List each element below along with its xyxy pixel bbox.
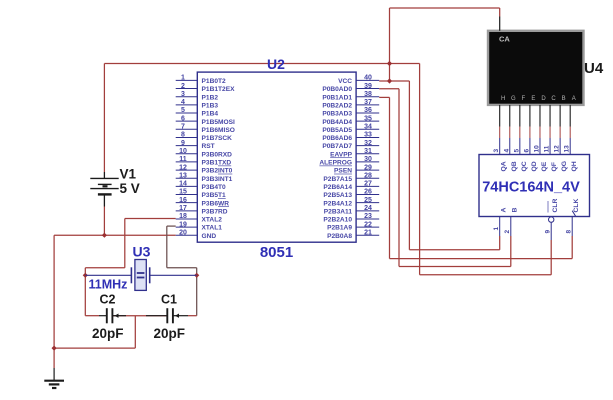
svg-text:5: 5 — [513, 149, 520, 153]
svg-text:ALEPROG: ALEPROG — [319, 160, 352, 167]
junction gnd rail — [52, 346, 57, 351]
U2 pin 4 P1B3 — [176, 99, 219, 109]
wire XTAL1: down to C1 — [196, 268, 198, 316]
svg-text:13: 13 — [564, 145, 571, 153]
ground — [44, 368, 64, 388]
U2 pin 32 P0B7AD7 — [322, 140, 379, 150]
svg-text:P2B4A12: P2B4A12 — [323, 200, 352, 207]
svg-text:12: 12 — [179, 164, 187, 171]
svg-text:1: 1 — [181, 75, 185, 82]
wire XTAL1: jog right — [167, 267, 197, 269]
svg-text:C2: C2 — [100, 293, 116, 307]
wire 164 pin1 drop — [499, 236, 501, 250]
svg-text:9: 9 — [544, 230, 551, 234]
U2 pin 39 P0B0AD0 — [322, 83, 379, 93]
junction VCC top — [387, 61, 392, 66]
svg-text:18: 18 — [179, 213, 187, 220]
U2 pin 25 P2B4A12 — [323, 197, 379, 207]
svg-text:P1B4: P1B4 — [202, 111, 219, 118]
svg-text:PSEN: PSEN — [334, 168, 352, 175]
wire GND: cap mid rail — [54, 347, 135, 349]
svg-text:10: 10 — [179, 148, 187, 155]
wire display seg 1 — [509, 127, 511, 139]
U2 pin 13 P3B3INT1 — [176, 172, 233, 182]
svg-text:20: 20 — [179, 230, 187, 237]
svg-text:VCC: VCC — [338, 78, 352, 85]
svg-text:P1B7SCK: P1B7SCK — [202, 135, 233, 142]
wire VCC: battery top vertical — [103, 64, 105, 173]
junction battery gnd — [102, 233, 107, 238]
svg-text:11: 11 — [179, 156, 187, 163]
svg-text:P2B3A11: P2B3A11 — [324, 208, 353, 215]
junction crystal left — [83, 273, 88, 278]
74HC164 pin 4 QB — [503, 138, 518, 172]
svg-text:31: 31 — [364, 148, 372, 155]
svg-text:QF: QF — [551, 162, 558, 171]
U2 pin 29 PSEN — [334, 164, 379, 174]
svg-text:6: 6 — [523, 149, 530, 153]
svg-text:P2B2A10: P2B2A10 — [323, 217, 352, 224]
wire VCC: junction down to pin 40 — [389, 64, 391, 82]
svg-text:P0B3AD3: P0B3AD3 — [322, 111, 352, 118]
wire XTAL2: vertical — [124, 219, 126, 268]
svg-text:U4: U4 — [584, 60, 604, 77]
U2 pin 18 XTAL2 — [176, 213, 223, 223]
svg-text:P3B6WR: P3B6WR — [202, 200, 230, 207]
wire XTAL2: lead to C2 — [85, 315, 99, 317]
svg-text:P0B0AD0: P0B0AD0 — [322, 86, 352, 93]
wire display seg 4 — [539, 127, 541, 139]
svg-text:P1B0T2: P1B0T2 — [202, 78, 227, 85]
svg-text:19: 19 — [179, 221, 187, 228]
svg-text:20pF: 20pF — [92, 326, 124, 341]
svg-text:P2B0A8: P2B0A8 — [327, 233, 352, 240]
svg-text:38: 38 — [364, 91, 372, 98]
U2 pin 9 RST — [176, 140, 215, 150]
svg-text:EAVPP: EAVPP — [330, 151, 352, 158]
display segment pin D — [540, 96, 546, 126]
svg-text:32: 32 — [364, 140, 372, 147]
display segment pin F — [520, 96, 526, 126]
wire VCC: top rail to display CA — [390, 7, 500, 9]
wire GND: left rail down — [53, 235, 55, 368]
U2 pin 21 P2B0A8 — [327, 230, 379, 240]
svg-text:P0B4AD4: P0B4AD4 — [322, 119, 352, 126]
U2 pin 26 P2B5A13 — [323, 189, 379, 199]
display segment pin H — [500, 96, 506, 126]
wire VCC: vertical riser to top rail — [389, 8, 391, 64]
svg-text:2: 2 — [504, 230, 511, 234]
U2 pin 17 P3B7RD — [176, 205, 228, 215]
wire display seg 5 — [549, 127, 551, 139]
wire cap mid segment — [112, 315, 167, 317]
svg-text:RST: RST — [202, 143, 215, 150]
svg-text:P3B4T0: P3B4T0 — [202, 184, 227, 191]
svg-text:40: 40 — [364, 75, 372, 82]
svg-text:7: 7 — [181, 124, 185, 131]
capacitor C2 — [99, 308, 126, 323]
wire VCC: long vertical to CLR row — [419, 64, 421, 275]
svg-text:39: 39 — [364, 83, 372, 90]
display segment pin E — [530, 96, 535, 126]
svg-text:14: 14 — [179, 181, 187, 188]
U2 pin 2 P1B1T2EX — [176, 83, 235, 93]
U2 pin 14 P3B4T0 — [176, 181, 226, 191]
74HC164 pin 1 A — [493, 208, 508, 237]
svg-text:XTAL2: XTAL2 — [202, 217, 223, 224]
svg-text:P1B1T2EX: P1B1T2EX — [202, 86, 236, 93]
74HC164 pin 11 QF — [544, 138, 559, 172]
U2 pin 10 P3B0RXD — [176, 148, 232, 158]
svg-text:10: 10 — [534, 145, 541, 153]
svg-text:23: 23 — [364, 213, 372, 220]
svg-text:12: 12 — [554, 145, 561, 153]
U2 pin 11 P3B1TXD — [176, 156, 232, 166]
junction VCC pin40 — [387, 78, 392, 83]
svg-text:74HC164N_4V: 74HC164N_4V — [482, 180, 580, 196]
svg-text:P0B6AD6: P0B6AD6 — [322, 135, 352, 142]
svg-text:C1: C1 — [161, 293, 177, 307]
svg-text:P3B7RD: P3B7RD — [202, 208, 228, 215]
U2 pin 20 GND — [176, 230, 217, 240]
U2 pin 31 EAVPP — [330, 148, 379, 158]
svg-text:CLK: CLK — [573, 198, 580, 212]
wire P0.0: horizontal to 164 pin2 B — [399, 266, 511, 268]
svg-text:3: 3 — [181, 91, 185, 98]
svg-text:8: 8 — [181, 132, 185, 139]
wire XTAL2: down to C2 — [84, 268, 86, 316]
74HC164 pin 13 QH — [564, 138, 579, 172]
svg-text:P3B2INT0: P3B2INT0 — [202, 168, 233, 175]
U2 pin 40 VCC — [338, 75, 379, 85]
svg-text:P2B7A15: P2B7A15 — [323, 176, 352, 183]
svg-text:CLR: CLR — [552, 198, 559, 212]
svg-text:QC: QC — [521, 161, 528, 171]
svg-text:15: 15 — [179, 189, 187, 196]
svg-text:H: H — [501, 96, 505, 102]
battery V1 — [90, 172, 118, 207]
svg-text:5 V: 5 V — [120, 181, 140, 196]
svg-text:C: C — [551, 96, 556, 102]
svg-text:F: F — [521, 96, 525, 102]
svg-text:8051: 8051 — [260, 244, 293, 261]
wire XTAL2: pin18 row — [125, 218, 176, 220]
svg-text:P1B2: P1B2 — [202, 94, 219, 101]
wire display seg 2 — [519, 127, 521, 139]
wire XTAL1: vertical — [166, 226, 168, 268]
svg-text:P0B2AD2: P0B2AD2 — [322, 102, 352, 109]
display segment pin G — [510, 96, 516, 126]
wire P0.1: horizontal to 164 pin8 CLK — [390, 258, 573, 260]
svg-text:16: 16 — [179, 197, 187, 204]
svg-text:5: 5 — [181, 107, 185, 114]
U2 pin 5 P1B4 — [176, 107, 219, 117]
U2 pin 28 P2B7A15 — [323, 172, 379, 182]
svg-text:37: 37 — [364, 99, 372, 106]
svg-text:4: 4 — [181, 99, 185, 106]
74HC164 pin 10 QE — [534, 138, 549, 172]
wire VCC: branch junction to x420 — [390, 63, 420, 65]
svg-text:17: 17 — [179, 205, 187, 212]
svg-text:P3B0RXD: P3B0RXD — [202, 151, 233, 158]
wire pin40 row — [379, 80, 409, 82]
U2 pin 34 P0B5AD5 — [322, 124, 379, 134]
svg-text:8: 8 — [565, 230, 572, 234]
wire P0.0: pin39 row — [379, 88, 399, 90]
svg-text:29: 29 — [364, 164, 372, 171]
U2 pin 24 P2B3A11 — [324, 205, 379, 215]
svg-text:34: 34 — [364, 124, 372, 131]
svg-text:P3B5T1: P3B5T1 — [202, 192, 227, 199]
svg-text:P0B1AD1: P0B1AD1 — [322, 94, 352, 101]
svg-text:E: E — [531, 96, 535, 102]
wire VCC: top horizontal battery to junction — [104, 63, 389, 65]
U2 pin 35 P0B4AD4 — [322, 115, 379, 125]
svg-text:26: 26 — [364, 189, 372, 196]
U2 pin 27 P2B6A14 — [323, 181, 379, 191]
display CA pin stub — [499, 17, 501, 31]
svg-text:GND: GND — [202, 233, 217, 240]
wire display seg 7 — [569, 127, 571, 139]
svg-text:6: 6 — [181, 115, 185, 122]
svg-text:25: 25 — [364, 197, 372, 204]
74HC164 pin 12 QG — [554, 138, 569, 172]
svg-text:D: D — [541, 96, 546, 102]
junction crystal right — [194, 273, 199, 278]
svg-text:9: 9 — [181, 140, 185, 147]
op 74HC164N IC body — [479, 155, 590, 217]
display segment pin A — [570, 96, 576, 126]
U2 pin 38 P0B1AD1 — [322, 91, 379, 101]
svg-text:35: 35 — [364, 115, 372, 122]
svg-text:XTAL1: XTAL1 — [202, 225, 223, 232]
74HC164 pin 9 CLR — [544, 198, 559, 240]
U2 pin 3 P1B2 — [176, 91, 219, 101]
svg-text:P1B6MISO: P1B6MISO — [202, 127, 235, 134]
svg-text:B: B — [512, 208, 519, 213]
wire XTAL1: lead to C1 — [188, 315, 197, 317]
svg-text:V1: V1 — [120, 167, 137, 182]
svg-text:33: 33 — [364, 132, 372, 139]
svg-text:U2: U2 — [267, 56, 285, 72]
svg-text:P3B3INT1: P3B3INT1 — [202, 176, 233, 183]
svg-text:2: 2 — [181, 83, 185, 90]
svg-text:P0B5AD5: P0B5AD5 — [322, 127, 352, 134]
svg-text:21: 21 — [364, 230, 372, 237]
wire CLR drop — [550, 240, 552, 275]
svg-text:QG: QG — [561, 161, 568, 172]
svg-text:11: 11 — [544, 145, 551, 152]
74HC164 pin 3 QA — [493, 138, 508, 172]
svg-text:30: 30 — [364, 156, 372, 163]
svg-text:4: 4 — [503, 149, 510, 153]
wire display seg 6 — [559, 127, 561, 139]
U2 pin 16 P3B6WR — [176, 197, 230, 207]
svg-text:P1B5MOSI: P1B5MOSI — [202, 119, 236, 126]
svg-text:P3B1TXD: P3B1TXD — [202, 160, 232, 167]
U2 pin 7 P1B6MISO — [176, 124, 235, 134]
U2 pin 19 XTAL1 — [176, 221, 223, 231]
wire display seg 0 — [499, 127, 501, 139]
74HC164 pin 8 CLK — [565, 198, 580, 236]
wire VCC: drop into CA pin — [499, 8, 501, 17]
U2 pin 15 P3B5T1 — [176, 189, 226, 199]
svg-text:27: 27 — [364, 181, 372, 188]
wire P0.0: vertical — [398, 89, 400, 267]
display U4 body — [488, 31, 584, 105]
svg-text:P0B7AD7: P0B7AD7 — [322, 143, 352, 150]
U2 pin 22 P2B1A9 — [327, 221, 379, 231]
svg-text:28: 28 — [364, 172, 372, 179]
wire P0.1: vertical — [389, 97, 391, 258]
wire GND: cap mid tap — [134, 316, 136, 348]
svg-text:B: B — [562, 96, 566, 102]
svg-text:24: 24 — [364, 205, 372, 212]
wire 164 pin2 drop — [510, 236, 512, 267]
svg-text:20pF: 20pF — [154, 326, 186, 341]
U2 pin 12 P3B2INT0 — [176, 164, 233, 174]
U2 pin 8 P1B7SCK — [176, 132, 232, 142]
svg-text:QB: QB — [511, 161, 518, 171]
wire GND: pin20 row — [54, 234, 176, 236]
svg-text:13: 13 — [179, 172, 187, 179]
display segment pin B — [560, 96, 565, 126]
U2 pin 33 P0B6AD6 — [322, 132, 379, 142]
op 8051 IC U2 body — [197, 72, 356, 242]
svg-text:QE: QE — [541, 161, 548, 171]
svg-text:U3: U3 — [133, 244, 151, 260]
74HC164 pin 2 B — [504, 208, 519, 237]
svg-text:22: 22 — [364, 221, 372, 228]
U2 pin 1 P1B0T2 — [176, 75, 226, 85]
U2 pin 37 P0B2AD2 — [322, 99, 379, 109]
wire XTAL1: pin19 row — [167, 225, 176, 227]
wire XTAL2: jog left — [85, 267, 125, 269]
wire VCC: horizontal to 164 pin1 A — [409, 249, 499, 251]
svg-text:QH: QH — [571, 161, 578, 171]
U2 pin 36 P0B3AD3 — [322, 107, 379, 117]
wire display seg 3 — [529, 127, 531, 139]
wire GND: battery bottom — [103, 207, 105, 236]
74HC164 pin 5 QC — [513, 138, 528, 172]
svg-text:P2B6A14: P2B6A14 — [323, 184, 352, 191]
U2 pin 6 P1B5MOSI — [176, 115, 235, 125]
svg-text:3: 3 — [493, 149, 500, 153]
svg-text:11MHz: 11MHz — [89, 278, 128, 292]
svg-text:A: A — [501, 208, 508, 213]
svg-text:1: 1 — [493, 227, 500, 231]
svg-text:QA: QA — [501, 161, 508, 171]
capacitor C1 — [146, 308, 188, 323]
svg-text:P2B1A9: P2B1A9 — [327, 225, 352, 232]
svg-text:P2B5A13: P2B5A13 — [323, 192, 352, 199]
wire P0.1: pin38 row — [379, 96, 389, 98]
U2 pin 30 ALEPROG — [319, 156, 379, 166]
U2 pin 23 P2B2A10 — [323, 213, 379, 223]
wire VCC: horizontal to CLR stub — [420, 274, 552, 276]
svg-text:A: A — [572, 96, 576, 102]
wire VCC: vertical to A input row — [408, 81, 410, 250]
svg-text:QD: QD — [531, 161, 538, 171]
wire 164 pin8 drop — [571, 236, 573, 259]
74HC164 pin 6 QD — [523, 138, 538, 172]
crystal U3 — [85, 260, 196, 291]
svg-text:G: G — [511, 96, 516, 102]
display segment pin C — [550, 96, 556, 126]
svg-text:P1B3: P1B3 — [202, 102, 219, 109]
svg-text:CA: CA — [499, 35, 510, 44]
svg-text:36: 36 — [364, 107, 372, 114]
